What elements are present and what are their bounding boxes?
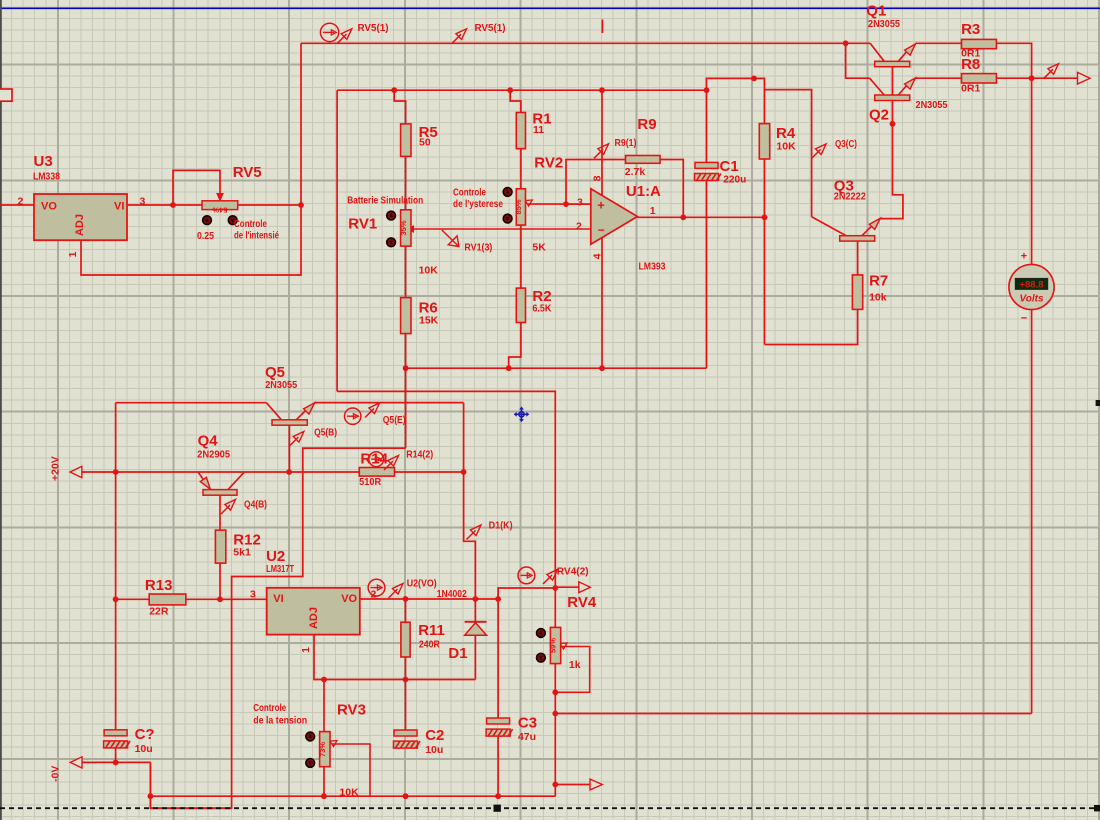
svg-text:15K: 15K bbox=[419, 315, 439, 327]
svg-text:Volts: Volts bbox=[1019, 293, 1044, 304]
svg-text:2: 2 bbox=[371, 589, 377, 601]
svg-text:10K: 10K bbox=[419, 265, 439, 277]
svg-text:VO: VO bbox=[41, 201, 57, 213]
svg-text:LM338: LM338 bbox=[33, 171, 60, 183]
svg-text:ADJ: ADJ bbox=[308, 607, 320, 629]
svg-text:Q5(B): Q5(B) bbox=[314, 427, 337, 439]
svg-text:-0V: -0V bbox=[50, 766, 62, 782]
svg-text:U2(VO): U2(VO) bbox=[407, 578, 437, 590]
svg-text:47u: 47u bbox=[518, 731, 536, 743]
svg-text:2N2905: 2N2905 bbox=[197, 449, 230, 461]
svg-text:2: 2 bbox=[576, 221, 582, 233]
svg-text:C?: C? bbox=[135, 726, 155, 743]
svg-text:2N2222: 2N2222 bbox=[834, 191, 866, 203]
svg-text:54%: 54% bbox=[212, 206, 227, 215]
svg-text:Q4: Q4 bbox=[198, 433, 219, 450]
svg-text:RV3: RV3 bbox=[337, 702, 366, 719]
svg-text:RV4: RV4 bbox=[567, 594, 597, 611]
svg-text:ADJ: ADJ bbox=[74, 214, 86, 236]
svg-text:RV2: RV2 bbox=[534, 155, 563, 172]
svg-text:VO: VO bbox=[341, 593, 357, 605]
svg-text:3: 3 bbox=[140, 196, 146, 208]
svg-text:U3: U3 bbox=[34, 153, 53, 170]
svg-text:de l'ysterese: de l'ysterese bbox=[453, 198, 503, 210]
svg-text:R14(2): R14(2) bbox=[406, 449, 433, 461]
svg-text:50: 50 bbox=[419, 137, 431, 149]
svg-text:RV4(2): RV4(2) bbox=[557, 566, 589, 578]
svg-text:−: − bbox=[1021, 313, 1027, 325]
svg-text:+20V: +20V bbox=[50, 456, 62, 481]
svg-text:10K: 10K bbox=[339, 787, 359, 799]
svg-text:R11: R11 bbox=[418, 622, 445, 639]
svg-text:1N4002: 1N4002 bbox=[437, 588, 467, 600]
svg-text:de la tension: de la tension bbox=[253, 715, 307, 727]
svg-text:LM393: LM393 bbox=[639, 261, 666, 273]
svg-text:10K: 10K bbox=[776, 141, 796, 153]
svg-text:10u: 10u bbox=[135, 743, 153, 755]
svg-text:D1(K): D1(K) bbox=[489, 520, 513, 532]
svg-text:10u: 10u bbox=[425, 744, 443, 756]
svg-text:4: 4 bbox=[592, 253, 604, 259]
svg-text:D1: D1 bbox=[448, 645, 467, 662]
svg-text:35%: 35% bbox=[399, 220, 408, 235]
svg-text:10k: 10k bbox=[869, 292, 887, 304]
svg-text:Q3(C): Q3(C) bbox=[835, 138, 857, 150]
svg-text:8: 8 bbox=[592, 175, 604, 181]
svg-text:R14: R14 bbox=[360, 451, 388, 468]
svg-text:1: 1 bbox=[650, 205, 656, 217]
svg-text:Controle: Controle bbox=[234, 218, 267, 230]
svg-text:3: 3 bbox=[577, 197, 583, 209]
svg-text:2: 2 bbox=[18, 196, 24, 208]
svg-text:Controle: Controle bbox=[253, 702, 286, 714]
svg-text:59%: 59% bbox=[549, 638, 558, 653]
svg-text:R13: R13 bbox=[145, 577, 173, 594]
svg-text:11: 11 bbox=[533, 124, 544, 136]
svg-text:+: + bbox=[597, 197, 605, 212]
svg-text:2N3055: 2N3055 bbox=[868, 18, 900, 30]
svg-text:RV5(1): RV5(1) bbox=[358, 22, 389, 34]
svg-text:−: − bbox=[598, 223, 605, 237]
svg-text:Q5(E): Q5(E) bbox=[383, 414, 406, 426]
svg-text:6.5K: 6.5K bbox=[532, 303, 551, 315]
svg-text:R4: R4 bbox=[776, 125, 796, 142]
svg-text:Q1: Q1 bbox=[866, 3, 886, 20]
svg-text:2.7k: 2.7k bbox=[625, 166, 646, 178]
svg-text:VI: VI bbox=[114, 201, 124, 213]
svg-text:RV1: RV1 bbox=[348, 216, 377, 233]
svg-text:C3: C3 bbox=[518, 715, 537, 732]
svg-text:3: 3 bbox=[250, 589, 256, 601]
svg-text:+: + bbox=[1021, 251, 1027, 263]
svg-text:22R: 22R bbox=[149, 606, 169, 618]
svg-text:VI: VI bbox=[273, 593, 283, 605]
svg-text:LM317T: LM317T bbox=[266, 563, 294, 575]
svg-text:R9: R9 bbox=[637, 116, 656, 133]
svg-text:RV5(1): RV5(1) bbox=[475, 22, 506, 34]
svg-text:R3: R3 bbox=[961, 21, 980, 38]
svg-text:510R: 510R bbox=[359, 476, 381, 488]
svg-text:1k: 1k bbox=[569, 659, 581, 671]
svg-text:R9(1): R9(1) bbox=[615, 137, 637, 149]
svg-text:0.25: 0.25 bbox=[197, 230, 214, 242]
svg-text:R7: R7 bbox=[869, 273, 888, 290]
svg-text:220u: 220u bbox=[723, 174, 746, 186]
svg-text:RV5: RV5 bbox=[233, 164, 262, 181]
svg-text:5k1: 5k1 bbox=[233, 547, 251, 559]
svg-text:85%: 85% bbox=[514, 199, 523, 214]
svg-text:Q2: Q2 bbox=[869, 107, 889, 124]
svg-text:2N3055: 2N3055 bbox=[916, 99, 948, 111]
svg-text:1: 1 bbox=[300, 647, 312, 653]
svg-text:0R1: 0R1 bbox=[961, 83, 980, 95]
svg-text:U1:A: U1:A bbox=[626, 183, 661, 200]
svg-text:Batterie Simulation: Batterie Simulation bbox=[347, 195, 423, 207]
svg-text:+88.8: +88.8 bbox=[1019, 280, 1043, 291]
svg-text:240R: 240R bbox=[419, 639, 440, 651]
svg-text:73%: 73% bbox=[318, 742, 327, 757]
svg-text:de l'intensié: de l'intensié bbox=[234, 230, 279, 242]
svg-text:5K: 5K bbox=[532, 242, 546, 254]
svg-text:0R1: 0R1 bbox=[961, 48, 980, 60]
svg-text:C2: C2 bbox=[425, 727, 444, 744]
svg-text:Q4(B): Q4(B) bbox=[244, 499, 267, 511]
svg-text:1: 1 bbox=[67, 251, 79, 257]
svg-text:C1: C1 bbox=[720, 158, 739, 175]
svg-text:Controle: Controle bbox=[453, 187, 486, 199]
svg-text:2N3055: 2N3055 bbox=[265, 379, 297, 391]
svg-text:RV1(3): RV1(3) bbox=[464, 242, 492, 254]
